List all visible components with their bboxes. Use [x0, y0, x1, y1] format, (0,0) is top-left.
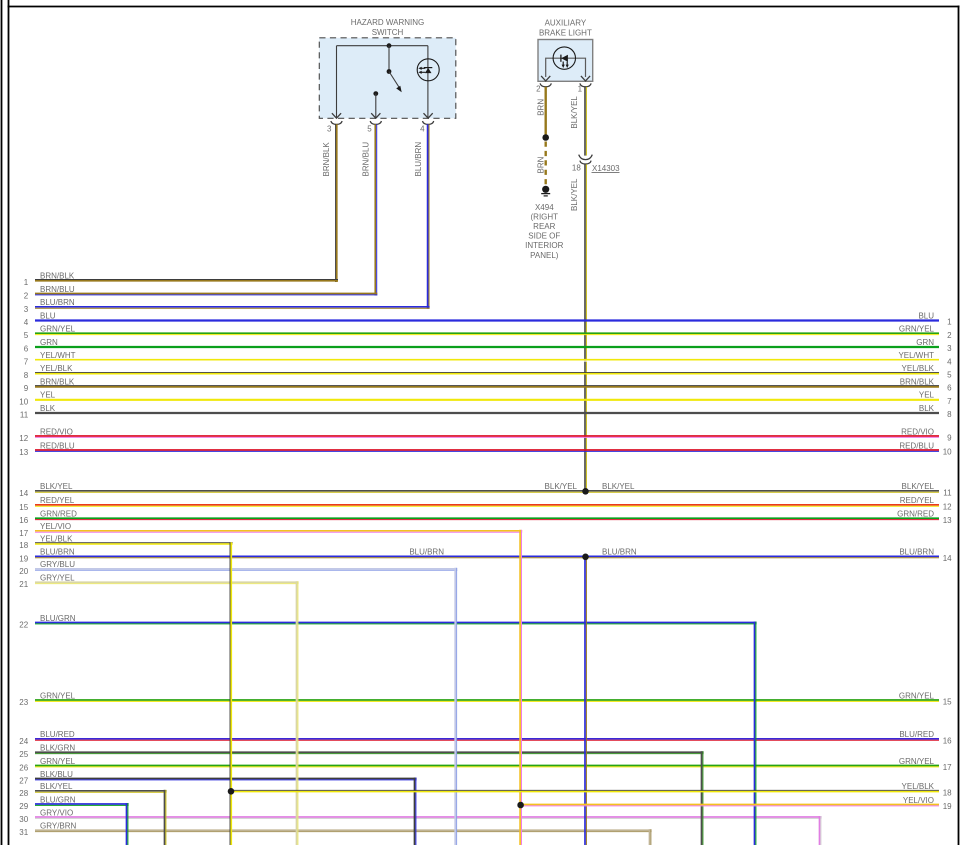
brake light pin 2 arrow	[541, 76, 550, 81]
svg-text:GRN: GRN	[916, 338, 934, 347]
svg-text:GRY/VIO: GRY/VIO	[40, 808, 73, 817]
wire GRY/BRN vertical at x=650	[650, 829, 651, 845]
svg-text:19: 19	[943, 802, 952, 811]
svg-text:GRN/YEL: GRN/YEL	[40, 757, 76, 766]
svg-text:11: 11	[20, 411, 29, 420]
svg-text:SWITCH: SWITCH	[372, 28, 404, 37]
svg-text:11: 11	[943, 488, 952, 497]
svg-text:9: 9	[947, 434, 952, 443]
wire BLK/BLU vertical at x=415	[415, 778, 416, 845]
hazard switch internal top rail wire	[337, 45, 428, 47]
svg-text:BRN/BLU: BRN/BLU	[40, 285, 75, 294]
svg-text:13: 13	[943, 516, 952, 525]
svg-text:18: 18	[19, 541, 28, 550]
svg-text:8: 8	[24, 371, 29, 380]
svg-text:6: 6	[947, 384, 952, 393]
brake light pin 1 arrow	[581, 76, 590, 81]
svg-text:15: 15	[19, 503, 28, 512]
svg-text:GRN/RED: GRN/RED	[897, 510, 934, 519]
svg-text:BLK/YEL: BLK/YEL	[570, 96, 579, 129]
right pin 19 label YEL/VIO	[903, 796, 952, 811]
wire YEL/BLK right pin 18 segment	[233, 790, 939, 791]
svg-text:16: 16	[943, 737, 952, 746]
hazard switch node on rail	[387, 43, 392, 48]
svg-text:18: 18	[572, 164, 581, 173]
hazard switch pin 5 arrow	[371, 113, 380, 118]
svg-text:14: 14	[19, 489, 28, 498]
hazard switch pin 5 connector	[370, 121, 381, 124]
svg-text:BRN/BLU: BRN/BLU	[362, 142, 371, 177]
svg-text:GRN/YEL: GRN/YEL	[899, 691, 935, 700]
svg-text:BRN/BLK: BRN/BLK	[900, 377, 935, 386]
right pin 8 label BLK	[919, 404, 952, 419]
inline connector X14303 female half	[580, 161, 591, 164]
svg-text:10: 10	[943, 448, 952, 457]
wire BLK/GRN vertical at x=702	[702, 751, 703, 845]
wire BRN/BLK left pin 1	[24, 271, 75, 287]
right pin 10 label RED/BLU	[899, 441, 952, 456]
svg-text:BLK/YEL: BLK/YEL	[570, 178, 579, 211]
wire YEL/VIO vertical at x=520.6	[520, 530, 521, 845]
svg-text:BLU/BRN: BLU/BRN	[40, 548, 75, 557]
svg-text:BLU/BRN: BLU/BRN	[899, 548, 934, 557]
svg-text:22: 22	[19, 621, 28, 630]
wire BLU/GRN vertical at x=755	[755, 622, 756, 845]
wire BLU/BRN vertical from hazard pin 4	[428, 124, 429, 308]
wire GRY/BRN left pin 31	[19, 822, 76, 838]
svg-text:12: 12	[943, 503, 952, 512]
svg-text:10: 10	[19, 397, 28, 406]
svg-text:YEL/BLK: YEL/BLK	[40, 535, 73, 544]
svg-text:BRN: BRN	[536, 156, 545, 173]
right pin 4 label YEL/WHT	[898, 351, 952, 366]
svg-text:BLU: BLU	[40, 311, 56, 320]
hazard switch lever	[389, 72, 401, 90]
svg-text:GRN/YEL: GRN/YEL	[899, 325, 935, 334]
svg-text:RED/VIO: RED/VIO	[40, 427, 73, 436]
svg-text:RED/BLU: RED/BLU	[40, 441, 75, 450]
right pin 15 label GRN/YEL	[899, 691, 952, 706]
svg-text:BLU/BRN: BLU/BRN	[602, 548, 637, 557]
svg-text:27: 27	[19, 777, 28, 786]
svg-text:BLU/BRN: BLU/BRN	[40, 298, 75, 307]
brake light LED symbol	[553, 47, 575, 69]
svg-text:RED/BLU: RED/BLU	[899, 441, 934, 450]
svg-text:25: 25	[19, 750, 28, 759]
svg-text:BLK/YEL: BLK/YEL	[602, 482, 635, 491]
svg-text:1: 1	[578, 85, 583, 94]
svg-text:24: 24	[19, 737, 28, 746]
wire GRY/BLU left pin 20	[19, 560, 75, 576]
svg-text:YEL: YEL	[40, 391, 56, 400]
wire GRY/YEL left pin 21	[19, 574, 75, 590]
svg-text:GRN/YEL: GRN/YEL	[899, 757, 935, 766]
svg-text:2: 2	[536, 85, 541, 94]
right pin 17 label GRN/YEL	[899, 757, 952, 772]
wire BLU/BRN left pin 3	[24, 298, 75, 314]
svg-text:17: 17	[943, 763, 952, 772]
right pin 6 label BRN/BLK	[900, 377, 952, 392]
svg-text:YEL/VIO: YEL/VIO	[40, 522, 71, 531]
right pin 5 label YEL/BLK	[902, 364, 953, 379]
right pin 9 label RED/VIO	[901, 427, 952, 442]
svg-text:X14303: X14303	[592, 164, 620, 173]
hazard switch pivot node	[387, 69, 392, 74]
svg-text:17: 17	[19, 529, 28, 538]
right pin 1 label BLU	[918, 311, 952, 326]
svg-text:23: 23	[19, 698, 28, 707]
wire GRY/VIO vertical at x=820	[820, 816, 821, 845]
page border outer line	[1, 0, 3, 845]
wire YEL/BLK left pin 8	[24, 364, 73, 380]
wire GRY/YEL vertical at x=297	[297, 581, 298, 845]
svg-text:AUXILIARY: AUXILIARY	[545, 18, 587, 27]
svg-text:15: 15	[943, 698, 952, 707]
junction node BLK/YEL at wire 14	[582, 488, 589, 495]
svg-text:4: 4	[947, 357, 952, 366]
svg-text:2: 2	[947, 331, 952, 340]
svg-text:REAR: REAR	[533, 222, 555, 231]
right pin 16 label BLU/RED	[899, 730, 952, 745]
svg-text:1: 1	[947, 318, 952, 327]
wire GRY/BLU vertical at x=455.7	[455, 568, 456, 845]
svg-text:26: 26	[19, 764, 28, 773]
svg-text:BLK/YEL: BLK/YEL	[40, 782, 73, 791]
wire BLU/GRN left pin 29	[19, 795, 75, 811]
hazard switch movable contact post	[388, 46, 390, 72]
svg-text:X494: X494	[535, 203, 554, 212]
svg-text:6: 6	[24, 345, 29, 354]
svg-text:GRN/YEL: GRN/YEL	[40, 325, 76, 334]
wire BLK left pin 11	[20, 404, 56, 420]
svg-text:8: 8	[947, 410, 952, 419]
wire BRN/BLU left pin 2	[24, 285, 75, 301]
right pin 11 label BLK/YEL	[902, 482, 953, 497]
brake light pin 1 connector	[580, 83, 591, 86]
wire GRN/YEL left pin 26	[19, 757, 75, 773]
svg-text:GRN/RED: GRN/RED	[40, 510, 77, 519]
svg-text:18: 18	[943, 788, 952, 797]
brake light internal wire	[546, 58, 586, 77]
svg-text:7: 7	[947, 397, 952, 406]
svg-text:BRN/BLK: BRN/BLK	[40, 271, 75, 280]
svg-text:BLU/BRN: BLU/BRN	[409, 548, 444, 557]
inline connector X14303 male half	[579, 155, 593, 160]
svg-text:HAZARD WARNING: HAZARD WARNING	[351, 18, 424, 27]
wire BLK/YEL left pin 14	[19, 482, 73, 498]
svg-text:BLU/GRN: BLU/GRN	[40, 614, 76, 623]
svg-text:BLU/RED: BLU/RED	[899, 730, 934, 739]
svg-text:BLK: BLK	[40, 404, 56, 413]
right pin 14 label BLU/BRN	[899, 548, 952, 563]
svg-text:30: 30	[19, 815, 28, 824]
wire BLU/RED left pin 24	[19, 730, 75, 746]
right pin 2 label GRN/YEL	[899, 325, 952, 340]
wire YEL/WHT left pin 7	[24, 351, 76, 367]
hazard switch pin 4 arrow	[424, 113, 433, 118]
wire YEL/VIO right pin 19 segment	[522, 805, 939, 806]
wire GRN/RED left pin 16	[19, 510, 77, 526]
brake light pin 2 connector	[540, 83, 551, 86]
wire BLK/YEL vertical at x=165	[165, 790, 166, 845]
junction node on BRN wire	[542, 134, 549, 141]
svg-text:(RIGHT: (RIGHT	[531, 212, 559, 221]
svg-text:GRY/BLU: GRY/BLU	[40, 560, 75, 569]
svg-text:YEL: YEL	[919, 391, 935, 400]
svg-text:29: 29	[19, 802, 28, 811]
hazard switch pin 5 internal wire	[375, 94, 377, 118]
svg-text:GRN: GRN	[40, 338, 58, 347]
wire BLK/YEL left pin 28	[19, 782, 73, 798]
wire YEL/BLK left pin 18	[19, 535, 73, 551]
svg-text:GRY/YEL: GRY/YEL	[40, 574, 75, 583]
ground X494 label	[525, 203, 563, 260]
auxiliary brake light box	[538, 40, 593, 82]
svg-text:BRN: BRN	[536, 99, 545, 116]
hazard warning switch box	[319, 38, 456, 119]
wire BRN/BLK left pin 9	[24, 377, 75, 393]
wire BLK/YEL from brake light pin 1	[585, 87, 586, 156]
svg-text:YEL/BLK: YEL/BLK	[902, 782, 935, 791]
svg-text:BLK/YEL: BLK/YEL	[40, 482, 73, 491]
svg-text:4: 4	[420, 124, 425, 133]
wire BLU left pin 4	[24, 311, 56, 327]
svg-text:21: 21	[19, 580, 28, 589]
svg-text:BLK/GRN: BLK/GRN	[40, 744, 75, 753]
svg-text:BLU/RED: BLU/RED	[40, 730, 75, 739]
wire YEL/BLK vertical at x=231	[230, 542, 231, 845]
svg-text:YEL/WHT: YEL/WHT	[40, 351, 76, 360]
hazard switch pin 3 internal wire	[336, 46, 338, 118]
svg-text:14: 14	[943, 554, 952, 563]
svg-text:BRAKE LIGHT: BRAKE LIGHT	[539, 28, 592, 37]
wire BRN/BLK vertical from hazard pin 3	[336, 124, 337, 282]
svg-text:12: 12	[19, 434, 28, 443]
wire BLK/YEL below connector	[585, 164, 586, 491]
svg-text:5: 5	[947, 371, 952, 380]
wire BLU/BRN vertical at x=585.5	[585, 557, 586, 845]
svg-text:9: 9	[24, 384, 29, 393]
wire BRN from brake light pin 2	[545, 87, 547, 137]
wire BLU/BRN left pin 19	[19, 548, 75, 564]
wire RED/VIO left pin 12	[19, 427, 73, 443]
svg-text:YEL/WHT: YEL/WHT	[898, 351, 934, 360]
svg-text:BLU/BRN: BLU/BRN	[414, 142, 423, 177]
right pin 3 label GRN	[916, 338, 952, 353]
wire GRN/YEL left pin 5	[24, 325, 76, 341]
right pin 12 label RED/YEL	[900, 496, 952, 511]
junction node BLU/BRN at wire 19	[582, 554, 589, 561]
svg-text:3: 3	[24, 305, 29, 314]
svg-text:BRN/BLK: BRN/BLK	[40, 377, 75, 386]
svg-text:13: 13	[19, 448, 28, 457]
svg-text:YEL/VIO: YEL/VIO	[903, 796, 934, 805]
svg-text:BLU/GRN: BLU/GRN	[40, 795, 76, 804]
wire YEL/VIO left pin 17	[19, 522, 71, 538]
junction node YEL/VIO at right pin 19 wire	[517, 802, 524, 809]
wire RED/BLU left pin 13	[19, 441, 75, 457]
wire GRN left pin 6	[24, 338, 58, 354]
wire BLK/GRN left pin 25	[19, 744, 75, 760]
wire YEL left pin 10	[19, 391, 55, 407]
svg-text:BLK/YEL: BLK/YEL	[545, 482, 578, 491]
wire GRN/YEL left pin 23	[19, 691, 75, 707]
svg-text:28: 28	[19, 789, 28, 798]
svg-text:2: 2	[24, 292, 29, 301]
hazard switch pin 4 internal wire	[427, 46, 429, 118]
hazard switch pin 3 arrow	[332, 113, 341, 118]
svg-text:BLK/YEL: BLK/YEL	[902, 482, 935, 491]
svg-text:5: 5	[24, 331, 29, 340]
svg-text:YEL/BLK: YEL/BLK	[902, 364, 935, 373]
svg-text:1: 1	[24, 278, 29, 287]
svg-text:SIDE OF: SIDE OF	[528, 232, 560, 241]
hazard switch LED indicator	[417, 59, 439, 81]
ground X494	[541, 186, 550, 196]
svg-text:20: 20	[19, 567, 28, 576]
svg-text:BRN/BLK: BRN/BLK	[322, 142, 331, 177]
wire BLU/GRN left pin 22	[19, 614, 75, 630]
svg-text:GRY/BRN: GRY/BRN	[40, 822, 77, 831]
svg-text:YEL/BLK: YEL/BLK	[40, 364, 73, 373]
svg-text:7: 7	[24, 358, 29, 367]
hazard switch pin 3 connector	[331, 121, 342, 124]
svg-text:16: 16	[19, 516, 28, 525]
svg-text:INTERIOR: INTERIOR	[525, 241, 563, 250]
svg-text:RED/YEL: RED/YEL	[40, 496, 75, 505]
wire BLK/BLU left pin 27	[19, 770, 73, 786]
svg-text:3: 3	[327, 124, 332, 133]
svg-text:3: 3	[947, 344, 952, 353]
wire BRN dashed section	[545, 142, 547, 185]
hazard switch pin 5 contact node	[373, 91, 378, 96]
svg-text:31: 31	[19, 828, 28, 837]
wire BRN/BLU vertical from hazard pin 5	[375, 124, 376, 295]
wire GRY/VIO left pin 30	[19, 808, 73, 824]
svg-text:5: 5	[367, 124, 372, 133]
svg-text:BLK/BLU: BLK/BLU	[40, 770, 73, 779]
svg-text:RED/YEL: RED/YEL	[900, 496, 935, 505]
hazard switch pin 4 connector	[423, 121, 434, 124]
connector X14303 label	[592, 164, 621, 173]
right pin 7 label YEL	[919, 391, 952, 406]
right pin 13 label GRN/RED	[897, 510, 952, 525]
svg-text:19: 19	[19, 554, 28, 563]
junction node YEL/BLK at right pin 18 wire	[228, 788, 235, 795]
svg-text:BLU: BLU	[918, 311, 934, 320]
svg-text:RED/VIO: RED/VIO	[901, 427, 934, 436]
wire BLU/GRN vertical at x=127	[127, 803, 128, 845]
svg-text:GRN/YEL: GRN/YEL	[40, 691, 76, 700]
svg-text:4: 4	[24, 318, 29, 327]
svg-text:PANEL): PANEL)	[530, 251, 559, 260]
wire RED/YEL left pin 15	[19, 496, 74, 512]
right pin 18 label YEL/BLK	[902, 782, 953, 797]
svg-text:BLK: BLK	[919, 404, 935, 413]
